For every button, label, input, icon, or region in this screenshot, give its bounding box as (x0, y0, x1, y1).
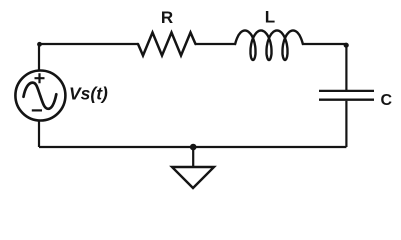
ground junction dot (190, 144, 197, 151)
voltage source plus sign (35, 73, 45, 83)
wire bottom horizontal (39, 146, 346, 148)
svg-text:Vs(t): Vs(t) (69, 84, 108, 104)
wire right vertical lower (345, 101, 347, 147)
wire left vertical upper (38, 44, 40, 71)
node dot top-right (344, 43, 349, 48)
svg-text:L: L (265, 8, 275, 27)
wire between resistor and inductor (196, 43, 237, 45)
voltage source Vs circle (15, 71, 65, 121)
voltage source sine wave (24, 83, 57, 109)
inductor L (235, 31, 303, 61)
svg-text:C: C (381, 92, 393, 109)
capacitor C bottom plate (319, 99, 374, 101)
capacitor C top plate (319, 90, 374, 92)
wire top-right horizontal (303, 43, 347, 45)
node dot top-left (37, 42, 42, 47)
wire top-left horizontal (39, 43, 138, 45)
ground symbol triangle (172, 167, 214, 188)
wire left vertical lower (38, 121, 40, 148)
resistor R (138, 33, 196, 56)
ground stub wire (192, 147, 194, 167)
wire right vertical upper (345, 44, 347, 90)
voltage source minus sign (32, 109, 42, 111)
svg-text:R: R (161, 8, 173, 27)
